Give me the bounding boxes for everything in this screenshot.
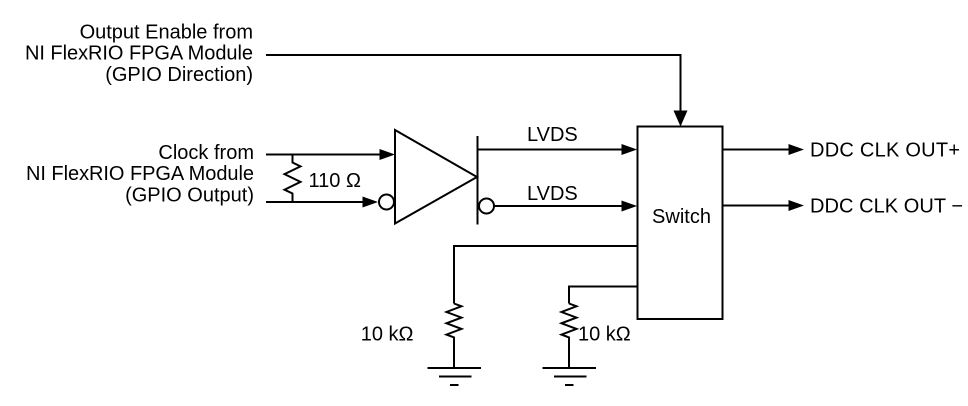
wire: clock to buffer non-inverting input <box>266 154 380 156</box>
wire: switch to DDC CLK OUT- <box>723 205 789 207</box>
wire: output enable net to switch top <box>266 55 681 111</box>
arrowhead at switch LVDS+ input <box>622 144 638 155</box>
svg-text:NI FlexRIO FPGA Module: NI FlexRIO FPGA Module <box>25 43 253 65</box>
wire: switch to DDC CLK OUT+ <box>723 149 789 151</box>
switch U2 box <box>638 127 723 320</box>
svg-text:Clock from: Clock from <box>158 142 254 164</box>
net label: Clock from NI FlexRIO FPGA Module (GPIO Output) <box>26 142 254 207</box>
svg-text:NI FlexRIO FPGA Module: NI FlexRIO FPGA Module <box>26 163 254 185</box>
svg-text:Output Enable from: Output Enable from <box>80 22 253 44</box>
wire: switch to left pull-down resistor <box>454 246 638 304</box>
svg-text:(GPIO Direction): (GPIO Direction) <box>105 64 253 86</box>
resistor R1 110 ohm termination <box>285 155 301 203</box>
arrowhead at buffer non-inverting input <box>380 149 396 160</box>
ground left <box>428 368 482 385</box>
svg-text:Switch: Switch <box>652 206 711 228</box>
wire: LVDS true output to switch <box>478 149 623 151</box>
arrowhead DDC CLK OUT- <box>789 200 805 211</box>
inversion bubble on buffer complementary output <box>479 199 494 214</box>
svg-text:10 kΩ: 10 kΩ <box>578 324 631 346</box>
svg-text:LVDS: LVDS <box>527 183 578 205</box>
resistor R2 10 kohm left pull-down <box>447 304 462 368</box>
svg-text:110 Ω: 110 Ω <box>309 170 361 192</box>
svg-text:DDC CLK OUT+: DDC CLK OUT+ <box>810 140 960 162</box>
svg-text:DDC CLK OUT −: DDC CLK OUT − <box>810 196 963 218</box>
wire: switch to right pull-down resistor <box>569 287 638 304</box>
wire: LVDS complement output to switch <box>494 205 622 207</box>
arrowhead at buffer inverting input bubble <box>363 197 379 208</box>
arrowhead DDC CLK OUT+ <box>789 144 805 155</box>
net label: Output Enable from NI FlexRIO FPGA Module (GPIO Direction) <box>25 22 253 87</box>
ground right <box>543 368 597 385</box>
svg-text:(GPIO Output): (GPIO Output) <box>125 185 254 207</box>
wire: clock to buffer inverting input <box>266 201 363 203</box>
arrowhead into switch top pin <box>674 111 688 127</box>
inversion bubble on buffer inverting input <box>379 195 394 210</box>
arrowhead at switch LVDS- input <box>622 201 638 212</box>
svg-text:LVDS: LVDS <box>527 124 578 146</box>
buffer U1 LVDS driver triangle <box>395 130 477 224</box>
buffer output bar <box>477 136 479 225</box>
resistor R3 10 kohm right pull-down <box>562 304 577 368</box>
svg-text:10 kΩ: 10 kΩ <box>361 324 414 346</box>
